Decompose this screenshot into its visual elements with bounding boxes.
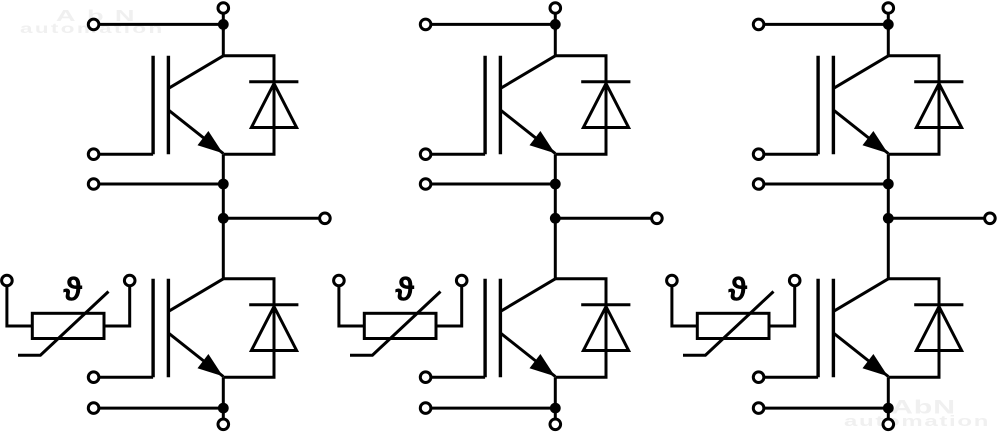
label theta (temperature) module 3 xyxy=(728,276,747,300)
terminal emitter aux E3 xyxy=(420,179,431,190)
junction top node module 2 xyxy=(550,19,561,30)
junction emitter sense node module 3 xyxy=(883,179,894,190)
terminal thermistor left module 2 xyxy=(334,275,345,286)
watermark bottom-right xyxy=(844,397,990,430)
terminal DC+ (pin C) module 3 xyxy=(883,3,894,14)
junction DC- node module 3 xyxy=(883,403,894,414)
wire midpoint drop module 1 xyxy=(222,184,225,218)
wire diode branch D6 loop xyxy=(888,279,939,378)
wire midpoint drop module 3 xyxy=(887,184,890,218)
wire emitter drop module 1 xyxy=(222,154,225,184)
wire lower emitter drop module 1 xyxy=(222,377,225,408)
terminal AC output module 2 xyxy=(652,213,663,224)
wire lower emitter drop module 2 xyxy=(554,377,557,408)
terminal thermistor right module 3 xyxy=(789,275,800,286)
thermistor RT2 (NTC) xyxy=(350,292,441,356)
svg-text:automation: automation xyxy=(844,413,990,429)
terminal gate G3 xyxy=(420,149,431,160)
wire emitter sense E6 xyxy=(759,407,889,410)
junction DC- node module 2 xyxy=(550,403,561,414)
terminal DC+ (pin C) module 2 xyxy=(550,3,561,14)
terminal collector aux module 1 xyxy=(88,19,99,30)
wire top DC+ lead module 1 xyxy=(222,13,225,30)
wire AC output module 3 xyxy=(888,217,990,220)
transistor Q3 (IGBT) xyxy=(485,56,555,155)
junction emitter sense node module 2 xyxy=(550,179,561,190)
transistor Q4 (IGBT) xyxy=(485,279,555,378)
junction emitter sense node module 1 xyxy=(218,179,229,190)
diode D3 xyxy=(581,82,630,128)
wire lower collector drop module 3 xyxy=(887,218,890,278)
wire emitter drop module 3 xyxy=(887,154,890,184)
wire collector drop module 3 xyxy=(887,24,890,55)
terminal collector aux module 3 xyxy=(753,19,764,30)
wire AC output module 2 xyxy=(555,217,657,220)
diode D1 xyxy=(249,82,298,128)
wire gate lead G2 xyxy=(94,376,154,379)
watermark top-left xyxy=(20,7,165,36)
wire thermistor left lead module 3 xyxy=(672,281,697,327)
wire diode branch D3 loop xyxy=(555,56,606,155)
terminal emitter aux E1 xyxy=(88,179,99,190)
wire gate lead G6 xyxy=(759,376,819,379)
wire emitter sense E2 xyxy=(94,407,224,410)
terminal collector aux module 2 xyxy=(420,19,431,30)
wire lower collector drop module 2 xyxy=(554,218,557,278)
terminal emitter aux E6 xyxy=(753,403,764,414)
terminal thermistor left module 1 xyxy=(2,275,13,286)
diode D5 xyxy=(914,82,963,128)
wire emitter sense E5 xyxy=(759,183,889,186)
terminal gate G4 xyxy=(420,372,431,383)
terminal gate G5 xyxy=(753,149,764,160)
wire diode branch D2 loop xyxy=(223,279,274,378)
wire diode branch D1 loop xyxy=(223,56,274,155)
wire collector aux module 2 xyxy=(426,23,556,26)
wire thermistor right lead module 1 xyxy=(104,281,130,327)
label theta (temperature) module 2 xyxy=(395,276,414,300)
junction output node module 2 xyxy=(550,213,561,224)
wire collector aux module 1 xyxy=(94,23,224,26)
junction output node module 1 xyxy=(218,213,229,224)
wire emitter sense E1 xyxy=(94,183,224,186)
terminal DC- (pin E) module 1 xyxy=(218,419,229,430)
terminal DC+ (pin C) module 1 xyxy=(218,3,229,14)
diode D2 xyxy=(249,305,298,351)
thermistor RT3 (NTC) xyxy=(683,292,774,356)
wire AC output module 1 xyxy=(223,217,325,220)
wire top DC+ lead module 2 xyxy=(554,13,557,30)
wire midpoint drop module 2 xyxy=(554,184,557,218)
wire bottom DC- lead module 2 xyxy=(554,408,557,424)
transistor Q5 (IGBT) xyxy=(818,56,888,155)
terminal thermistor right module 1 xyxy=(124,275,135,286)
junction output node module 3 xyxy=(883,213,894,224)
transistor Q1 (IGBT) xyxy=(153,56,223,155)
wire collector aux module 3 xyxy=(759,23,889,26)
wire emitter sense E3 xyxy=(426,183,556,186)
wire bottom DC- lead module 3 xyxy=(887,408,890,424)
terminal AC output module 1 xyxy=(320,213,331,224)
terminal thermistor right module 2 xyxy=(456,275,467,286)
wire diode branch D4 loop xyxy=(555,279,606,378)
junction top node module 3 xyxy=(883,19,894,30)
terminal gate G1 xyxy=(88,149,99,160)
wire emitter sense E4 xyxy=(426,407,556,410)
terminal emitter aux E5 xyxy=(753,179,764,190)
terminal emitter aux E4 xyxy=(420,403,431,414)
wire bottom DC- lead module 1 xyxy=(222,408,225,424)
label theta (temperature) module 1 xyxy=(63,276,82,300)
transistor Q2 (IGBT) xyxy=(153,279,223,378)
wire thermistor left lead module 1 xyxy=(7,281,32,327)
terminal emitter aux E2 xyxy=(88,403,99,414)
wire gate lead G1 xyxy=(94,153,154,156)
wire gate lead G5 xyxy=(759,153,819,156)
wire thermistor right lead module 3 xyxy=(769,281,795,327)
wire collector drop module 1 xyxy=(222,24,225,55)
terminal gate G6 xyxy=(753,372,764,383)
wire top DC+ lead module 3 xyxy=(887,13,890,30)
terminal thermistor left module 3 xyxy=(667,275,678,286)
terminal DC- (pin E) module 2 xyxy=(550,419,561,430)
junction DC- node module 1 xyxy=(218,403,229,414)
terminal gate G2 xyxy=(88,372,99,383)
terminal DC- (pin E) module 3 xyxy=(883,419,894,430)
wire thermistor right lead module 2 xyxy=(436,281,462,327)
wire thermistor left lead module 2 xyxy=(339,281,364,327)
wire lower collector drop module 1 xyxy=(222,218,225,278)
terminal AC output module 3 xyxy=(985,213,996,224)
wire lower emitter drop module 3 xyxy=(887,377,890,408)
diode D6 xyxy=(914,305,963,351)
wire emitter drop module 2 xyxy=(554,154,557,184)
junction top node module 1 xyxy=(218,19,229,30)
transistor Q6 (IGBT) xyxy=(818,279,888,378)
wire diode branch D5 loop xyxy=(888,56,939,155)
thermistor RT1 (NTC) xyxy=(18,292,109,356)
wire collector drop module 2 xyxy=(554,24,557,55)
wire gate lead G4 xyxy=(426,376,486,379)
diode D4 xyxy=(581,305,630,351)
wire gate lead G3 xyxy=(426,153,486,156)
